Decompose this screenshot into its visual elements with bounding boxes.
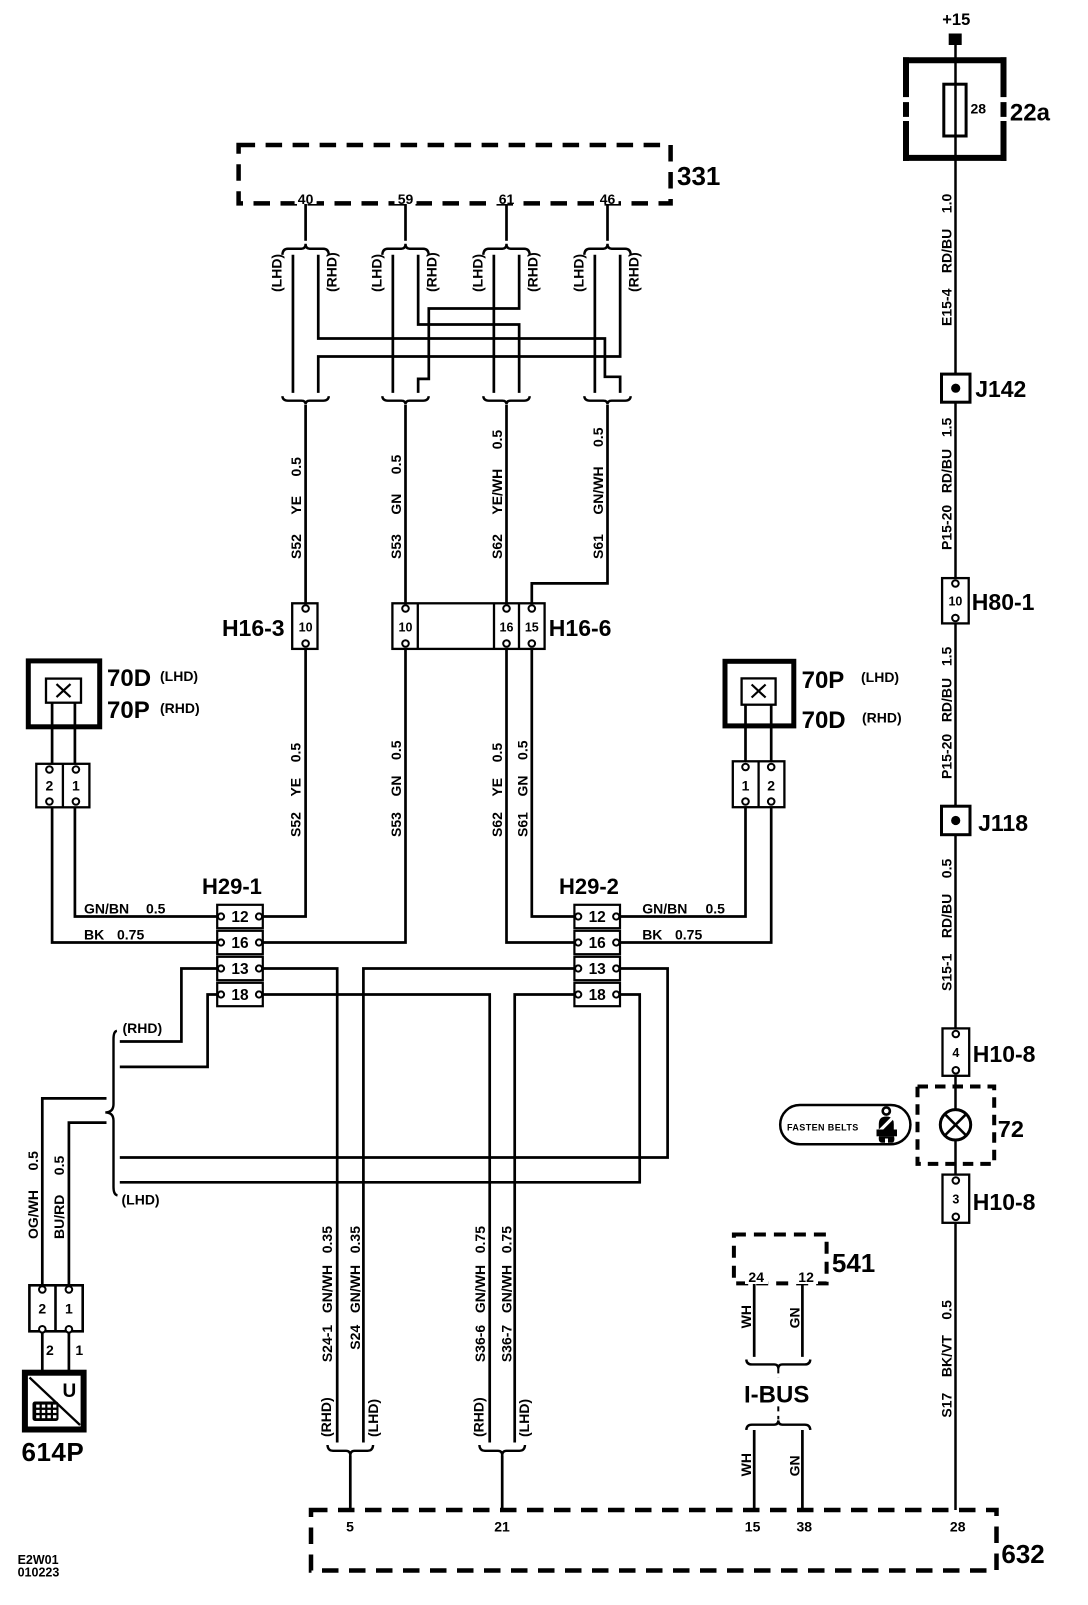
svg-text:010223: 010223 <box>18 1566 60 1580</box>
svg-text:46: 46 <box>600 191 616 207</box>
svg-text:1: 1 <box>75 1342 83 1358</box>
svg-text:(LHD): (LHD) <box>365 1399 381 1437</box>
svg-text:P15-20 RD/BU 1.5: P15-20 RD/BU 1.5 <box>939 647 955 779</box>
svg-text:(RHD): (RHD) <box>424 252 440 292</box>
svg-text:U: U <box>63 1381 77 1402</box>
svg-text:21: 21 <box>494 1519 510 1535</box>
svg-text:1: 1 <box>72 778 80 794</box>
svg-text:BK: BK <box>84 927 104 943</box>
svg-text:BU/RD 0.5: BU/RD 0.5 <box>51 1156 67 1239</box>
svg-text:16: 16 <box>589 935 607 952</box>
svg-text:P15-20 RD/BU 1.5: P15-20 RD/BU 1.5 <box>939 418 955 550</box>
svg-text:WH: WH <box>738 1453 754 1476</box>
svg-text:70D: 70D <box>802 707 846 734</box>
svg-text:(LHD): (LHD) <box>571 254 587 292</box>
svg-text:40: 40 <box>298 191 314 207</box>
svg-text:BK: BK <box>642 927 662 943</box>
svg-text:WH: WH <box>738 1305 754 1328</box>
svg-text:(RHD): (RHD) <box>626 252 642 292</box>
svg-text:E15-4 RD/BU 1.0: E15-4 RD/BU 1.0 <box>939 194 955 326</box>
svg-text:(LHD): (LHD) <box>516 1399 532 1437</box>
svg-text:18: 18 <box>589 987 607 1004</box>
svg-text:(RHD): (RHD) <box>525 252 541 292</box>
svg-text:3: 3 <box>952 1193 959 1207</box>
svg-text:I-BUS: I-BUS <box>744 1382 809 1409</box>
svg-text:0.75: 0.75 <box>675 927 702 943</box>
svg-text:FASTEN BELTS: FASTEN BELTS <box>787 1123 859 1133</box>
svg-text:61: 61 <box>499 191 515 207</box>
svg-text:H10-8: H10-8 <box>973 1189 1036 1215</box>
svg-text:2: 2 <box>46 1342 54 1358</box>
svg-text:38: 38 <box>797 1519 813 1535</box>
svg-text:S36-7 GN/WH 0.75: S36-7 GN/WH 0.75 <box>499 1226 515 1362</box>
svg-text:(LHD): (LHD) <box>369 254 385 292</box>
svg-text:S36-6 GN/WH 0.75: S36-6 GN/WH 0.75 <box>472 1226 488 1362</box>
svg-text:12: 12 <box>231 909 248 926</box>
svg-text:16: 16 <box>500 621 514 635</box>
svg-text:10: 10 <box>299 621 313 635</box>
svg-text:12: 12 <box>589 909 606 926</box>
svg-text:S62 YE/WH 0.5: S62 YE/WH 0.5 <box>489 430 505 559</box>
svg-text:(RHD): (RHD) <box>471 1397 487 1437</box>
svg-text:0.5: 0.5 <box>146 901 166 917</box>
svg-text:GN/BN: GN/BN <box>642 901 687 917</box>
svg-text:614P: 614P <box>22 1437 85 1467</box>
svg-text:13: 13 <box>589 961 607 978</box>
svg-text:GN/BN: GN/BN <box>84 901 129 917</box>
svg-text:(RHD): (RHD) <box>324 252 340 292</box>
svg-text:10: 10 <box>948 595 962 609</box>
svg-text:OG/WH 0.5: OG/WH 0.5 <box>25 1151 41 1239</box>
svg-text:15: 15 <box>745 1519 761 1535</box>
svg-text:1: 1 <box>65 1301 73 1317</box>
svg-text:H16-3: H16-3 <box>222 615 285 641</box>
svg-text:S15-1 RD/BU 0.5: S15-1 RD/BU 0.5 <box>939 859 955 991</box>
svg-text:10: 10 <box>399 621 413 635</box>
svg-text:5: 5 <box>346 1519 354 1535</box>
svg-text:S24-1 GN/WH 0.35: S24-1 GN/WH 0.35 <box>319 1226 335 1362</box>
svg-text:H10-8: H10-8 <box>973 1041 1036 1067</box>
svg-text:GN: GN <box>786 1307 802 1328</box>
svg-text:28: 28 <box>971 101 987 117</box>
svg-text:(LHD): (LHD) <box>160 668 198 684</box>
svg-text:28: 28 <box>950 1519 966 1535</box>
svg-text:J118: J118 <box>978 810 1028 836</box>
svg-text:331: 331 <box>677 161 720 191</box>
svg-text:(LHD): (LHD) <box>122 1192 160 1208</box>
svg-text:H80-1: H80-1 <box>972 589 1035 615</box>
svg-text:J142: J142 <box>975 376 1026 402</box>
svg-text:H29-2: H29-2 <box>559 874 619 899</box>
svg-text:70D: 70D <box>107 665 151 692</box>
svg-text:4: 4 <box>952 1046 959 1060</box>
svg-text:13: 13 <box>231 961 249 978</box>
svg-text:70P: 70P <box>802 667 845 694</box>
svg-text:22a: 22a <box>1010 100 1051 127</box>
svg-text:632: 632 <box>1001 1539 1044 1569</box>
svg-text:+15: +15 <box>942 11 970 29</box>
svg-text:(LHD): (LHD) <box>861 669 899 685</box>
svg-text:15: 15 <box>525 621 539 635</box>
svg-text:0.5: 0.5 <box>706 901 726 917</box>
svg-text:(LHD): (LHD) <box>470 254 486 292</box>
svg-text:1: 1 <box>742 778 750 794</box>
svg-text:H16-6: H16-6 <box>549 615 612 641</box>
svg-text:(RHD): (RHD) <box>318 1397 334 1437</box>
svg-text:0.75: 0.75 <box>117 927 144 943</box>
svg-text:2: 2 <box>767 778 775 794</box>
svg-text:S52 YE 0.5: S52 YE 0.5 <box>288 457 304 559</box>
svg-text:541: 541 <box>832 1248 875 1278</box>
svg-text:S24 GN/WH 0.35: S24 GN/WH 0.35 <box>347 1226 363 1350</box>
svg-text:(RHD): (RHD) <box>160 700 200 716</box>
svg-text:2: 2 <box>38 1301 46 1317</box>
svg-text:18: 18 <box>231 987 249 1004</box>
svg-text:12: 12 <box>798 1269 814 1285</box>
svg-text:S17 BK/VT 0.5: S17 BK/VT 0.5 <box>939 1300 955 1418</box>
svg-text:S61 GN 0.5: S61 GN 0.5 <box>514 740 530 837</box>
svg-text:(RHD): (RHD) <box>862 710 902 726</box>
svg-text:59: 59 <box>398 191 414 207</box>
svg-text:S62 YE 0.5: S62 YE 0.5 <box>489 743 505 837</box>
svg-text:S53 GN 0.5: S53 GN 0.5 <box>388 455 404 559</box>
svg-text:(RHD): (RHD) <box>123 1020 163 1036</box>
svg-text:S53 GN 0.5: S53 GN 0.5 <box>388 740 404 837</box>
svg-text:2: 2 <box>46 778 54 794</box>
svg-text:16: 16 <box>231 935 249 952</box>
svg-text:S52 YE 0.5: S52 YE 0.5 <box>288 743 304 837</box>
svg-text:(LHD): (LHD) <box>269 254 285 292</box>
svg-text:24: 24 <box>748 1269 764 1285</box>
svg-text:70P: 70P <box>107 697 150 724</box>
svg-text:72: 72 <box>998 1116 1024 1142</box>
svg-text:H29-1: H29-1 <box>202 874 262 899</box>
svg-text:GN: GN <box>786 1455 802 1476</box>
svg-text:S61 GN/WH 0.5: S61 GN/WH 0.5 <box>590 427 606 559</box>
